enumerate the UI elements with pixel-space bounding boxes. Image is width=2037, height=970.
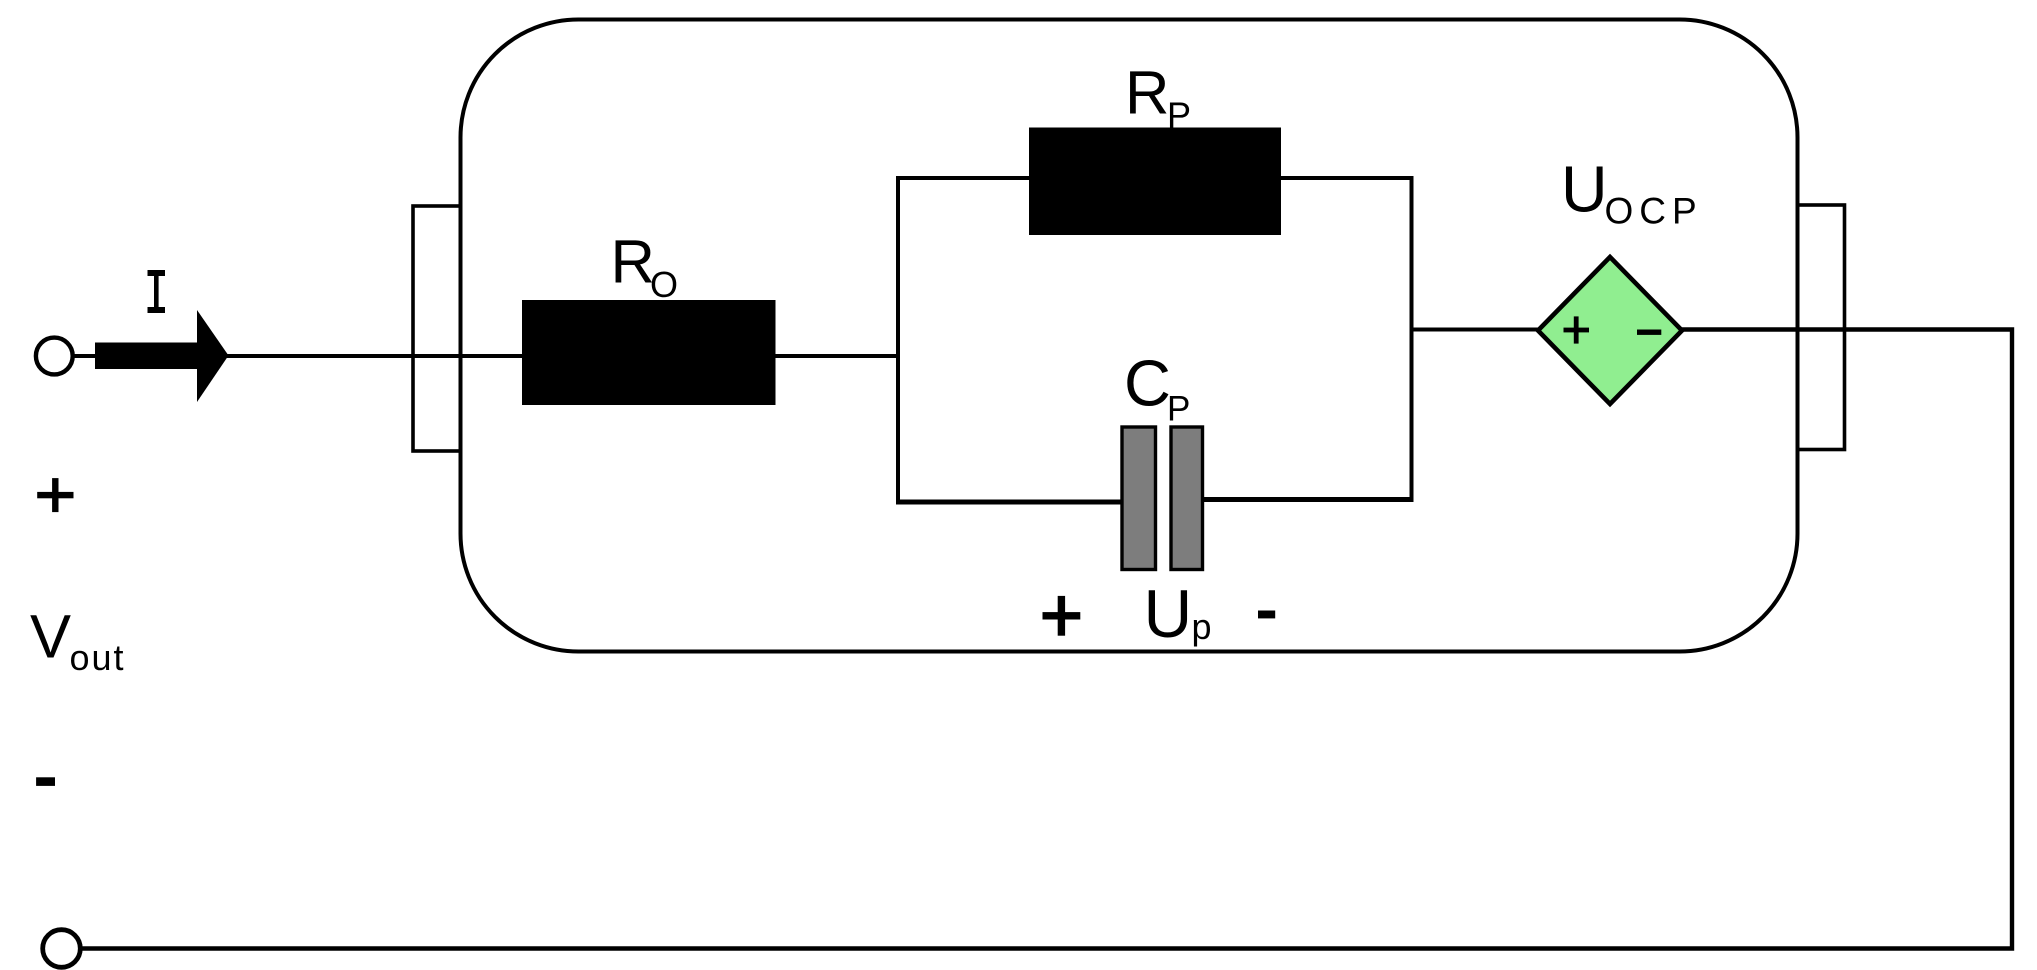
svg-text:O: O	[650, 264, 678, 305]
svg-text:P: P	[1167, 390, 1190, 429]
left terminal tab	[413, 206, 461, 451]
svg-text:out: out	[70, 637, 126, 678]
resistor RP	[1029, 128, 1281, 236]
capacitor CP plate left	[1122, 427, 1156, 570]
battery body outline	[461, 20, 1798, 652]
label plus Vout	[37, 478, 73, 512]
node terminal circle bottom left	[43, 930, 81, 968]
minus sign Up	[1258, 611, 1275, 619]
svg-text:P: P	[1167, 95, 1191, 136]
svg-text:p: p	[1192, 606, 1212, 647]
svg-text:R: R	[611, 228, 655, 297]
label minus Vout	[36, 777, 55, 786]
resistor R0	[522, 300, 776, 405]
wire output right	[80, 330, 2012, 949]
right terminal tab	[1798, 205, 1845, 450]
svg-text:V: V	[30, 603, 71, 672]
minus sign inside source	[1637, 330, 1661, 335]
label I	[148, 270, 166, 313]
node terminal circle top left	[36, 338, 73, 375]
plus sign Up	[1043, 596, 1081, 636]
svg-text:R: R	[1125, 59, 1169, 128]
capacitor CP plate right	[1171, 427, 1203, 570]
current arrow I	[95, 310, 229, 402]
svg-text:OCP: OCP	[1605, 191, 1703, 232]
wire parallel loop	[896, 176, 1414, 504]
svg-text:U: U	[1561, 154, 1608, 226]
plus sign inside source	[1564, 316, 1590, 343]
svg-text:U: U	[1144, 577, 1193, 652]
wire loop to source	[1412, 328, 1541, 332]
voltage source U_OCP diamond	[1538, 257, 1682, 404]
svg-text:C: C	[1124, 347, 1171, 420]
wire input left	[72, 354, 898, 358]
